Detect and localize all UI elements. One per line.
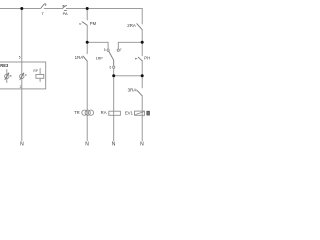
svg-text:EV1: EV1 <box>125 110 134 115</box>
wire right rail upper <box>141 8 143 24</box>
solenoid EV1 body <box>135 111 145 115</box>
svg-text:T: T <box>41 11 44 16</box>
svg-text:5: 5 <box>19 56 21 60</box>
svg-text:RP: RP <box>33 69 37 73</box>
svg-text:2RA: 2RA <box>127 23 136 28</box>
switch PA blade <box>63 5 66 7</box>
svg-text:8: 8 <box>10 74 12 78</box>
solenoid EV1 diagonal <box>136 112 144 115</box>
junction dot low bus left <box>112 74 115 77</box>
svg-text:RE3: RE3 <box>0 63 9 68</box>
switch T blade <box>41 4 46 8</box>
svg-text:RA: RA <box>101 110 107 115</box>
wire RA branch <box>113 76 115 141</box>
junction dot middle top <box>86 7 89 10</box>
wire mid horizontal bus left part <box>87 41 108 43</box>
switch PH blade <box>138 57 142 61</box>
svg-text:1RA: 1RA <box>75 55 84 60</box>
svg-text:N: N <box>85 142 89 148</box>
contact 1RA blade <box>83 56 87 61</box>
contact 3RA blade <box>137 90 142 95</box>
svg-text:PM: PM <box>90 21 97 26</box>
wire right rail between 2RA and mid bus <box>141 30 143 56</box>
switch PH arrow <box>135 58 138 60</box>
svg-text:PH: PH <box>144 56 150 61</box>
wire stub terminal 7 <box>117 42 119 49</box>
svg-text:8: 8 <box>25 73 27 77</box>
contact 2RA blade <box>137 24 142 30</box>
svg-text:5: 5 <box>104 48 106 52</box>
junction dot left <box>20 7 23 10</box>
svg-text:2: 2 <box>20 85 22 89</box>
lamp L2 arrowhead <box>22 73 24 75</box>
lamp L1 circle <box>5 74 9 78</box>
wire from terminal 6 down <box>113 68 115 75</box>
svg-text:7: 7 <box>120 48 122 52</box>
wire right rail between 3RA and EV1 <box>141 96 143 141</box>
resistor RP stub <box>39 69 41 82</box>
svg-text:PA: PA <box>63 11 68 16</box>
wire low horizontal bus <box>114 75 143 77</box>
junction dot mid bus right <box>141 41 144 44</box>
solenoid EV1 edge connector <box>147 111 150 115</box>
svg-text:1RP: 1RP <box>96 56 104 60</box>
switch PA actuator dash <box>64 9 66 11</box>
wire stub terminal 5 <box>107 42 109 49</box>
terminal 5 circle <box>107 49 109 51</box>
svg-text:N: N <box>20 142 24 148</box>
wire top bus left segment <box>0 7 41 9</box>
svg-text:TR: TR <box>74 110 80 115</box>
wire middle branch between PM and bus <box>86 25 88 53</box>
lamp L1 stub <box>6 70 8 83</box>
junction dot low bus right <box>141 74 144 77</box>
wire mid horizontal bus right part <box>118 41 142 43</box>
wire left branch vertical <box>21 8 23 62</box>
wire middle branch upper <box>86 8 88 20</box>
wire middle branch lower <box>86 61 88 141</box>
changeover blade 5-6 <box>109 51 114 66</box>
switch PA arrowhead <box>62 5 65 8</box>
svg-text:3RA: 3RA <box>128 88 137 93</box>
coil RA body <box>109 111 121 115</box>
wire top bus right segment <box>66 7 142 9</box>
resistor RP body <box>36 75 44 79</box>
relay box RE3 <box>0 62 46 89</box>
switch PM blade <box>82 22 87 26</box>
lamp L2 circle <box>20 74 24 78</box>
svg-text:6: 6 <box>110 66 112 70</box>
lamp L1 arrow <box>5 73 9 80</box>
junction dot mid bus left <box>86 41 89 44</box>
lamp L2 arrow <box>20 73 24 80</box>
wire right rail between PH and low bus <box>141 60 143 88</box>
lamp L1 arrowhead <box>7 73 9 75</box>
terminal 7 circle <box>117 49 119 51</box>
switch PM arrow <box>79 23 82 25</box>
transformer TR circles <box>82 110 87 115</box>
svg-text:N: N <box>140 142 144 148</box>
wire left branch inside box and below to N <box>21 62 23 141</box>
wire top bus middle segment <box>44 7 63 9</box>
svg-text:N: N <box>112 142 116 148</box>
terminal 6 circle <box>113 66 115 68</box>
